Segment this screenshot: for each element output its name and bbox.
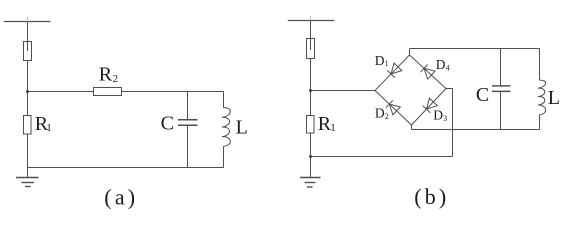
antenna/rail bar (b) [288, 16, 334, 21]
wire (b) rail junction to bridge left vertex [311, 90, 376, 92]
wire (b) top vertex stub [409, 49, 411, 56]
wire (a) bottom return [28, 167, 224, 169]
ground (b) [300, 178, 321, 188]
wire (b) bridge edge top-right [410, 55, 447, 89]
wire (b) top rail to tank [410, 48, 540, 50]
svg-text:1: 1 [46, 122, 52, 134]
antenna/rail bar (a) [4, 17, 51, 22]
diode D4 [421, 65, 436, 80]
diode D3 [423, 98, 438, 113]
svg-text:C: C [476, 84, 489, 106]
wire (a) from R2 to top-right corner [122, 91, 224, 93]
wire (a) rail between upper resistor and R1 [27, 61, 29, 116]
svg-text:L: L [236, 117, 248, 139]
svg-text:D: D [375, 105, 385, 120]
svg-text:1: 1 [330, 122, 336, 134]
wire (b) capacitor branch lower [500, 92, 502, 129]
svg-text:2: 2 [385, 112, 389, 121]
wire (a) rail top into upper resistor [27, 22, 29, 52]
svg-text:L: L [548, 87, 560, 109]
diode D1 [387, 63, 402, 78]
capacitor C (a) [178, 120, 198, 126]
svg-text:D: D [436, 57, 446, 72]
svg-text:(a): (a) [104, 185, 138, 210]
svg-text:2: 2 [113, 73, 119, 85]
inductor L (a) [222, 108, 230, 147]
resistor (b) unlabeled upper [307, 39, 315, 59]
wire (b) bridge edge left-top [375, 55, 410, 91]
svg-text:3: 3 [443, 114, 447, 123]
wire (a) right side above inductor [223, 92, 225, 108]
wire (b) right vertex jog [446, 88, 453, 90]
svg-text:(b): (b) [414, 184, 449, 209]
svg-text:4: 4 [446, 64, 450, 73]
diode D2 [386, 100, 401, 115]
wire (a) right side below inductor [223, 146, 225, 167]
wire (b) bridge edge left-bottom [375, 91, 412, 126]
wire (b) bottom rail of tank [412, 129, 540, 131]
wire (b) bottom return to rail [311, 156, 453, 158]
inductor L (b) [538, 80, 546, 115]
svg-text:D: D [433, 108, 443, 123]
wire (b) bridge edge bottom-right [412, 89, 447, 126]
node junction (a) at rail and R2 wire [26, 90, 29, 93]
wire (b) rail between upper resistor and R1 [310, 59, 312, 116]
svg-text:1: 1 [385, 59, 389, 68]
capacitor C (b) [492, 86, 511, 92]
svg-text:C: C [161, 112, 174, 134]
node junction (b) rail to bottom return [309, 155, 312, 158]
wire (b) right side above inductor [539, 49, 541, 81]
wire (b) bottom vertex stub [411, 125, 413, 130]
resistor (a) unlabeled upper [24, 42, 32, 61]
wire (b) right vertex drop [452, 89, 454, 157]
wire (a) rail below R1 to ground [27, 134, 29, 178]
wire (b) capacitor branch upper [500, 49, 502, 86]
resistor R2 (a) [94, 88, 122, 96]
resistor R1 (a) [24, 116, 32, 135]
ground (a) [16, 178, 39, 187]
wire (a) from rail junction to R2 [28, 91, 94, 93]
svg-text:R: R [99, 64, 113, 86]
node junction (b) rail to bridge input [309, 89, 312, 92]
wire (a) capacitor branch lower [187, 126, 189, 168]
wire (b) rail below R1 to ground [310, 133, 312, 178]
wire (a) capacitor branch upper [187, 92, 189, 120]
resistor R1 (b) [307, 116, 315, 134]
wire (b) right side below inductor [539, 115, 541, 130]
wire (b) rail top into upper resistor [310, 21, 312, 51]
svg-text:D: D [375, 53, 385, 68]
